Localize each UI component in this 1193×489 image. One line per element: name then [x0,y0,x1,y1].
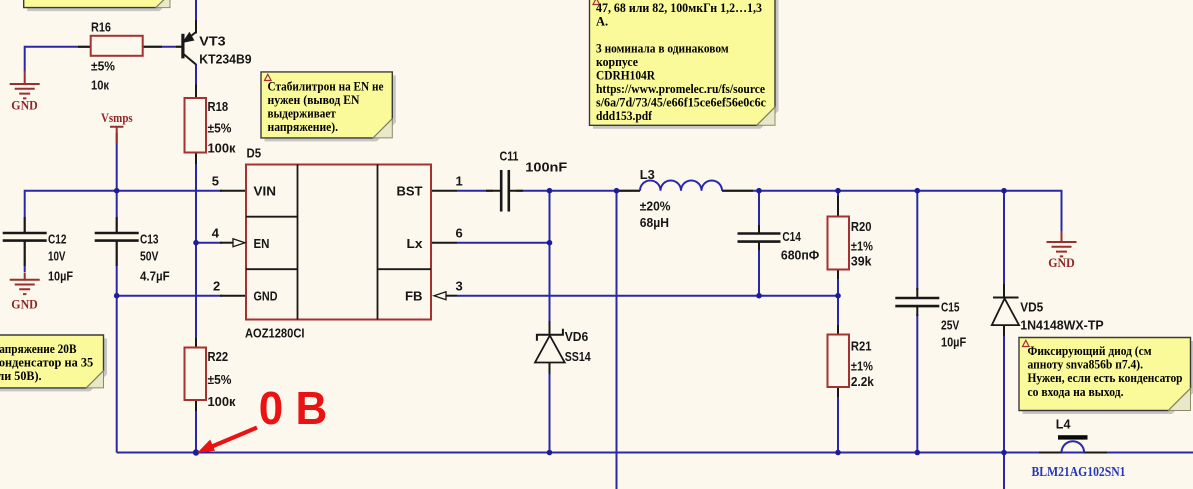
svg-text:VT3: VT3 [199,34,225,49]
svg-text:4.7µF: 4.7µF [140,269,170,284]
svg-text:FB: FB [405,289,423,304]
svg-text:3: 3 [456,279,463,294]
wire black C11 leads [486,190,523,192]
svg-text:напряжение).: напряжение). [268,120,339,134]
svg-text:Фиксирующий диод (см: Фиксирующий диод (см [1028,344,1152,358]
capacitor C11 [501,170,509,212]
svg-text:R16: R16 [91,20,111,35]
wire C14 top lead [758,191,760,226]
svg-text:25V: 25V [941,318,960,333]
svg-text:6: 6 [456,226,463,241]
svg-text:Стабилитрон на EN не: Стабилитрон на EN не [268,79,384,93]
junction VD5 top [1001,188,1007,194]
svg-text:10µF: 10µF [941,334,966,349]
svg-text:https://www.promelec.ru/fs/sou: https://www.promelec.ru/fs/source [596,82,765,96]
diode VD5 1N4148 [992,298,1019,326]
pin arrow FB (input) [434,292,446,300]
note top-left sliver [24,0,174,11]
svg-text:3 номинала в одинаковом: 3 номинала в одинаковом [596,42,729,56]
pin arrow EN (input) [233,239,245,247]
node A junction Vsmps/VIN [114,188,120,194]
svg-text:Напряжение 20В: Напряжение 20В [0,342,77,356]
svg-text:VD5: VD5 [1020,300,1043,315]
wire C13 bottom lead [116,241,118,296]
note clamp diode (bottom-right) [1019,338,1193,415]
svg-text:R18: R18 [208,99,229,114]
svg-text:нужен (вывод EN: нужен (вывод EN [268,93,360,107]
svg-text:GND: GND [11,98,38,113]
svg-text:5: 5 [212,174,219,189]
svg-text:1: 1 [456,174,463,189]
svg-text:C15: C15 [941,300,960,315]
svg-text:10к: 10к [91,77,109,92]
svg-text:BST: BST [397,184,423,199]
svg-text:680пФ: 680пФ [781,247,819,262]
svg-text:±20%: ±20% [640,199,671,214]
wire VT3 emitter up to top edge [195,0,197,19]
wire R21 top lead [837,296,839,335]
wire R20 top lead [837,191,839,217]
diode VD6 SS14 schottky [535,329,565,363]
wire C13 node down to 0V rail [116,296,118,453]
junction R20 top [835,188,841,194]
resistor R16 [91,36,143,56]
svg-text:1N4148WX-TP: 1N4148WX-TP [1020,317,1104,332]
svg-text:CDRH104R: CDRH104R [596,69,656,83]
resistor R20 [828,217,850,270]
svg-text:ddd153.pdf: ddd153.pdf [596,109,653,123]
svg-text:EN: EN [254,236,270,251]
junction VD5/0V [1001,450,1007,456]
wire VT3 collector to R18 [195,64,197,98]
capacitor C15 [895,298,939,306]
junction C15 top [915,188,921,194]
wire VIN net: C12 corner to VIN pin [25,191,222,233]
wire black VIN pin [220,190,246,192]
junction VD6/0V [547,450,553,456]
wire VD5 top lead [1003,191,1005,291]
wire black Lx pin [431,242,457,244]
svg-text:выдерживает: выдерживает [268,107,336,121]
node 0V red annotation arrow [197,428,257,453]
wire R16 to VT3 base [143,46,182,48]
junction L3/C14 output node [756,188,762,194]
wire black GND pin [220,295,246,297]
wire black VD5 leads [1003,284,1005,336]
svg-text:VIN: VIN [254,184,277,199]
wire black EN pin [220,242,233,244]
wire R18 to EN junction and EN pin [196,153,222,243]
junction C15/0V [915,450,921,456]
wire R20 bottom lead [837,270,839,296]
inductor L4 ferrite bead [1058,435,1088,452]
capacitor C12 [3,233,47,241]
wire black L4 leads [1039,452,1107,454]
wire black FB pin [446,295,457,297]
svg-text:4: 4 [212,226,220,241]
wire VD5 bottom lead down past 0V rail [1003,332,1005,489]
svg-text:C12: C12 [48,232,67,247]
junction EN/R18/R22 [193,240,199,246]
wire BST node down through Lx node to VD6 [549,191,551,328]
wire black VD6 leads [549,321,551,374]
wire node at 616 down across rails [616,191,618,489]
note EN comment (Стабилитрон) [261,72,396,141]
svg-text:Vsmps: Vsmps [101,110,133,125]
note inductor selection (top) [590,0,779,129]
svg-text:100nF: 100nF [525,160,567,175]
svg-text:со входа на выход.: со входа на выход. [1028,385,1124,399]
wire C13 top lead [116,191,118,233]
wire black emitter segment VT3 [195,19,197,33]
wire black C13 leads [116,217,118,266]
svg-text:Нужен, если есть конденсатор: Нужен, если есть конденсатор [1028,371,1183,385]
inductor L3 [640,180,722,190]
wire C12 bottom lead to GND [24,241,26,273]
svg-text:SS14: SS14 [565,349,592,364]
svg-text:10V: 10V [48,248,66,263]
svg-text:L3: L3 [640,167,655,182]
svg-text:47, 68 или 82, 100мкГн 1,2…1,3: 47, 68 или 82, 100мкГн 1,2…1,3 [596,1,762,15]
junction BST/C11 node [547,188,553,194]
junction 616/BST rail [614,188,620,194]
svg-text:100к: 100к [208,394,236,409]
wire output rail to GND corner [759,191,1062,232]
svg-text:100к: 100к [208,141,236,156]
ground GND top-right [1047,231,1077,256]
svg-text:±5%: ±5% [208,121,232,136]
wire black BST pin [431,190,457,192]
svg-text:68µH: 68µH [640,215,669,230]
svg-text:10µF: 10µF [48,269,73,284]
resistor R21 [828,335,850,388]
wire black lead GND-R16 [78,46,91,48]
svg-text:50V: 50V [140,248,159,263]
svg-text:s/6a/7d/73/45/e66f15ce6ef56e0c: s/6a/7d/73/45/e66f15ce6ef56e0c6c [596,96,766,110]
svg-text:BLM21AG102SN1: BLM21AG102SN1 [1032,465,1126,480]
svg-text:или 50В).: или 50В). [0,369,42,383]
junction C14/FB [756,293,762,299]
wire Vsmps to node A [116,133,118,191]
ground GND top-left [10,71,40,99]
wire C15 top lead [916,191,918,290]
junction R21/0V [835,450,841,456]
wire R22 bottom to 0V rail [195,400,197,453]
svg-text:А.: А. [596,15,608,29]
svg-text:2.2k: 2.2k [851,374,875,389]
wire black L3 leads [619,190,753,192]
wire GND net: C13 to GND pin [117,295,222,297]
wire R21 bottom lead [837,387,839,453]
wire C11 to L3 node [516,190,640,192]
svg-text:VD6: VD6 [565,329,589,344]
wire black leads R18 [195,85,197,165]
wire BST pin to C11 [457,190,493,192]
svg-text:±1%: ±1% [851,239,873,254]
wire black C12 leads [24,217,26,266]
wire FB net from pin to R20/R21 node [457,295,838,297]
wire C15 bottom lead [916,314,918,453]
wire black leads R22 [195,338,197,411]
svg-text:L4: L4 [1056,417,1071,432]
svg-text:39k: 39k [851,254,872,269]
ground GND under C12 [10,273,40,295]
junction R22/0V with arrow [193,449,199,455]
wire C14 bottom lead [758,249,760,296]
svg-text:апноту snva856b п7.4).: апноту snva856b п7.4). [1028,358,1144,372]
svg-text:R22: R22 [208,349,229,364]
resistor R18 [185,98,207,153]
wire black R20 leads [837,196,839,279]
svg-text:KT234B9: KT234B9 [199,52,251,67]
resistor R22 [185,348,207,401]
svg-text:C13: C13 [140,232,159,247]
wire 0V bottom rail [117,452,1193,454]
wire black R21 leads [837,325,839,397]
svg-text:Lx: Lx [407,236,424,251]
op-amp U1: IC D5 AOZ1280CI box [246,165,431,320]
svg-text:AOZ1280CI: AOZ1280CI [245,326,305,341]
capacitor C13 [95,233,139,241]
svg-text:C11: C11 [500,149,519,164]
capacitor C14 [738,234,781,242]
svg-text:±5%: ±5% [91,59,115,74]
wire black lead R16-base [143,46,183,48]
wire black C14 leads [758,225,760,250]
svg-text:C14: C14 [782,229,801,244]
wire L3 right lead to output node [722,190,759,192]
svg-text:R21: R21 [851,339,872,354]
svg-text:GND: GND [11,297,38,312]
junction C13/GND net [114,293,120,299]
transistor VT3 [183,32,196,65]
svg-text:2: 2 [213,279,220,294]
note input cap voltage (bottom-left) [0,335,107,391]
wire black C15 leads [916,288,918,316]
svg-text:GND: GND [1048,255,1075,270]
svg-text:R20: R20 [851,219,872,234]
wire VD6 bottom to 0V rail [549,369,551,453]
svg-text:0 В: 0 В [259,382,328,434]
junction R20/R21 FB node [835,293,841,299]
junction Lx node [547,240,553,246]
svg-text:±1%: ±1% [851,359,873,374]
wire Lx pin to node [457,242,550,244]
svg-text:GND: GND [254,289,278,304]
svg-text:D5: D5 [247,146,262,161]
svg-text:корпусе: корпусе [596,55,638,69]
wire EN junction down to R22 [195,243,197,348]
power port Vsmps [110,127,123,143]
svg-text:±5%: ±5% [208,372,232,387]
wire GND stub to R16 [25,47,91,72]
svg-text:Конденсатор на 35: Конденсатор на 35 [0,356,93,370]
